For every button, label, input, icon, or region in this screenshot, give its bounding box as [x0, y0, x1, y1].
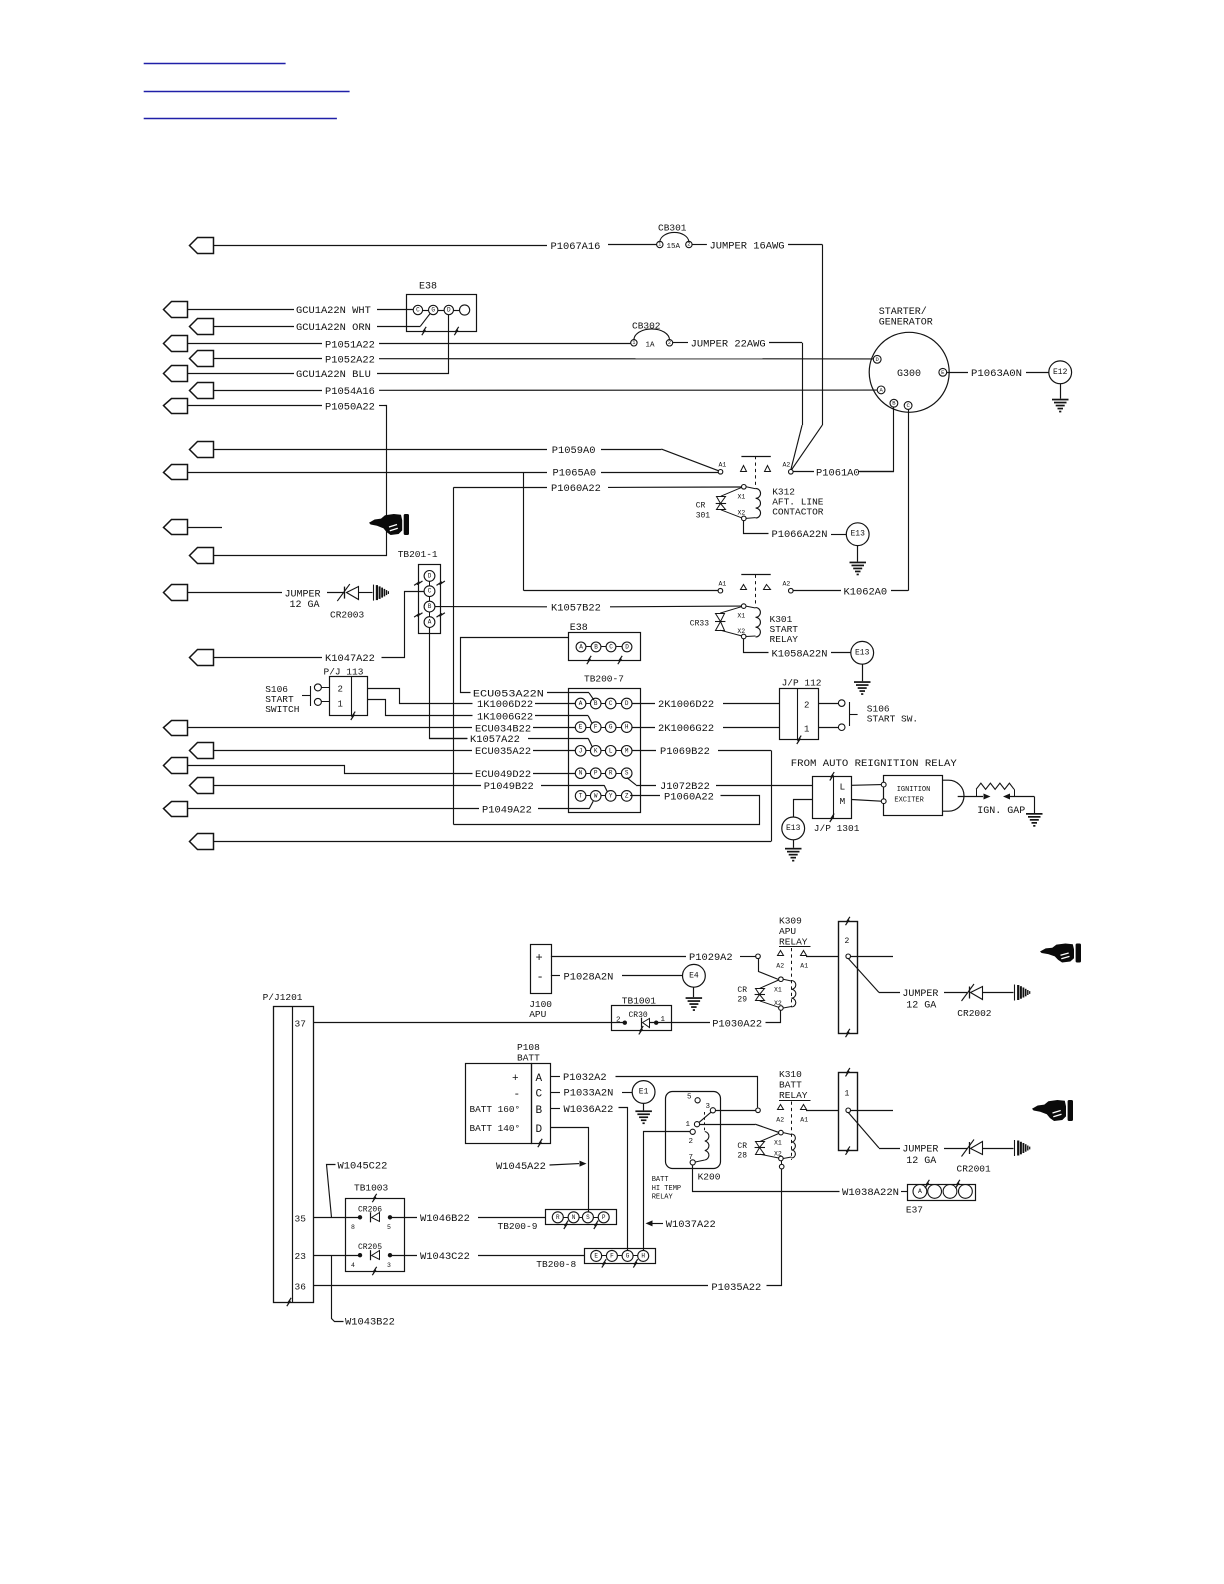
svg-text:A: A: [579, 700, 583, 707]
svg-text:12 GA: 12 GA: [906, 1000, 936, 1011]
svg-text:K1057A22: K1057A22: [470, 734, 520, 746]
svg-text:Y: Y: [609, 792, 613, 799]
svg-text:R: R: [556, 1214, 560, 1221]
svg-text:2: 2: [338, 685, 343, 695]
svg-text:-: -: [537, 970, 544, 984]
svg-text:BATT: BATT: [779, 1080, 802, 1091]
svg-text:GCU1A22N BLU: GCU1A22N BLU: [296, 369, 371, 381]
svg-text:29: 29: [737, 996, 747, 1005]
svg-text:S: S: [586, 1214, 590, 1221]
svg-text:J: J: [579, 747, 583, 754]
svg-text:RELAY: RELAY: [770, 634, 799, 645]
svg-text:B: B: [536, 1105, 543, 1117]
svg-text:S: S: [625, 770, 629, 777]
svg-text:STARTER/: STARTER/: [879, 306, 927, 318]
svg-text:W1043B22: W1043B22: [345, 1317, 395, 1329]
svg-text:CR2002: CR2002: [957, 1008, 992, 1019]
svg-text:A1: A1: [800, 1117, 808, 1124]
svg-text:C: C: [536, 1089, 543, 1101]
svg-text:Z: Z: [625, 792, 629, 799]
svg-text:HI TEMP: HI TEMP: [652, 1185, 681, 1193]
svg-text:W1038A22N: W1038A22N: [842, 1187, 899, 1199]
svg-text:P1060A22: P1060A22: [551, 483, 601, 495]
svg-text:A: A: [428, 619, 432, 626]
svg-text:15A: 15A: [667, 243, 681, 251]
svg-text:K1047A22: K1047A22: [325, 653, 375, 665]
svg-text:N: N: [579, 770, 583, 777]
svg-text:5: 5: [387, 1224, 391, 1231]
svg-text:B: B: [594, 643, 598, 650]
svg-text:-: -: [514, 1089, 521, 1101]
svg-text:12 GA: 12 GA: [290, 600, 320, 611]
svg-text:CR: CR: [737, 1142, 747, 1151]
svg-text:ECU049D22: ECU049D22: [475, 769, 531, 781]
svg-text:1: 1: [804, 724, 809, 734]
svg-text:2: 2: [616, 1017, 621, 1025]
svg-text:C: C: [428, 588, 432, 595]
svg-text:D: D: [447, 307, 451, 314]
svg-text:A2: A2: [776, 1117, 784, 1124]
svg-text:P/J 113: P/J 113: [324, 667, 364, 678]
svg-text:E13: E13: [850, 530, 865, 539]
svg-text:CB302: CB302: [632, 321, 661, 332]
svg-text:P1063A0N: P1063A0N: [971, 368, 1022, 380]
svg-text:X1: X1: [774, 1140, 782, 1147]
svg-text:JUMPER 22AWG: JUMPER 22AWG: [691, 339, 766, 351]
svg-text:36: 36: [295, 1281, 307, 1292]
svg-text:E13: E13: [786, 824, 801, 833]
svg-text:2: 2: [845, 937, 850, 946]
svg-text:L: L: [609, 747, 613, 754]
svg-text:1: 1: [686, 1121, 691, 1129]
svg-text:P1049B22: P1049B22: [484, 781, 534, 793]
svg-text:12 GA: 12 GA: [906, 1156, 936, 1167]
svg-text:P1033A2N: P1033A2N: [564, 1088, 614, 1100]
svg-text:W: W: [594, 792, 598, 799]
svg-text:P1067A16: P1067A16: [551, 241, 601, 253]
svg-text:D: D: [625, 700, 629, 707]
svg-text:BATT: BATT: [652, 1176, 669, 1184]
svg-text:TB200-7: TB200-7: [584, 674, 624, 685]
svg-text:P1060A22: P1060A22: [664, 792, 714, 804]
svg-text:P1029A2: P1029A2: [689, 952, 733, 964]
svg-text:W1036A22: W1036A22: [564, 1104, 614, 1116]
svg-text:JUMPER: JUMPER: [902, 1145, 938, 1156]
svg-text:P1032A2: P1032A2: [563, 1072, 607, 1084]
svg-text:8: 8: [351, 1224, 355, 1231]
svg-text:P1030A22: P1030A22: [712, 1018, 762, 1030]
svg-text:K: K: [594, 747, 598, 754]
svg-text:B: B: [428, 603, 432, 610]
svg-text:M: M: [625, 747, 629, 754]
svg-text:X1: X1: [737, 613, 745, 620]
svg-text:F: F: [594, 724, 598, 731]
svg-text:3: 3: [706, 1103, 711, 1111]
svg-text:SWITCH: SWITCH: [265, 704, 299, 715]
svg-text:301: 301: [696, 512, 711, 521]
svg-text:A1: A1: [719, 462, 727, 469]
svg-text:JUMPER 16AWG: JUMPER 16AWG: [710, 241, 785, 253]
svg-text:CR33: CR33: [690, 620, 709, 629]
svg-text:W1045A22: W1045A22: [496, 1161, 546, 1173]
svg-text:F: F: [610, 1252, 614, 1259]
svg-text:BATT 140°: BATT 140°: [470, 1123, 521, 1134]
svg-text:P1049A22: P1049A22: [482, 805, 532, 817]
svg-text:P/J1201: P/J1201: [263, 992, 303, 1003]
svg-text:H: H: [625, 724, 629, 731]
svg-text:5: 5: [687, 1093, 692, 1101]
svg-text:D: D: [625, 643, 629, 650]
svg-text:K1057B22: K1057B22: [551, 603, 601, 615]
svg-text:CR: CR: [737, 986, 747, 995]
svg-text:2K1006G22: 2K1006G22: [658, 723, 714, 735]
svg-text:28: 28: [737, 1151, 747, 1160]
svg-text:1K1006G22: 1K1006G22: [477, 711, 533, 723]
svg-text:CR2001: CR2001: [957, 1163, 992, 1174]
svg-text:A: A: [579, 643, 583, 650]
svg-text:P1066A22N: P1066A22N: [772, 529, 828, 541]
svg-text:P1059A0: P1059A0: [552, 445, 596, 457]
svg-text:R: R: [609, 770, 613, 777]
svg-text:A1: A1: [800, 963, 808, 970]
svg-text:1: 1: [658, 242, 661, 248]
svg-text:E37: E37: [906, 1204, 923, 1215]
svg-text:APU: APU: [529, 1009, 546, 1020]
svg-text:D: D: [536, 1124, 543, 1136]
svg-text:P1050A22: P1050A22: [325, 402, 375, 414]
svg-text:E13: E13: [855, 648, 870, 657]
svg-text:A: A: [918, 1188, 922, 1195]
svg-text:A2: A2: [776, 963, 784, 970]
svg-text:GENERATOR: GENERATOR: [879, 318, 933, 329]
svg-text:A1: A1: [719, 580, 727, 587]
svg-text:RELAY: RELAY: [779, 937, 808, 948]
svg-text:P1054A16: P1054A16: [325, 386, 375, 398]
svg-text:35: 35: [295, 1213, 307, 1224]
svg-text:BATT: BATT: [517, 1052, 540, 1063]
svg-text:G300: G300: [897, 369, 921, 380]
svg-text:M: M: [840, 796, 846, 807]
svg-text:E: E: [594, 1252, 598, 1259]
svg-text:BATT 160°: BATT 160°: [470, 1104, 521, 1115]
svg-text:23: 23: [295, 1251, 307, 1262]
svg-text:2: 2: [689, 1138, 694, 1146]
svg-text:TB201-1: TB201-1: [398, 549, 438, 560]
svg-text:2K1006D22: 2K1006D22: [658, 699, 714, 711]
svg-text:W1043C22: W1043C22: [420, 1251, 470, 1263]
svg-text:X2: X2: [738, 510, 746, 517]
svg-text:T: T: [579, 792, 583, 799]
svg-text:C: C: [609, 700, 613, 707]
svg-text:L: L: [840, 782, 846, 793]
svg-text:H: H: [641, 1252, 645, 1259]
svg-text:TB1003: TB1003: [354, 1182, 389, 1193]
svg-text:TB200-9: TB200-9: [498, 1221, 538, 1232]
svg-text:TB200-8: TB200-8: [536, 1259, 576, 1270]
svg-text:G: G: [431, 307, 435, 314]
svg-text:2: 2: [668, 340, 671, 346]
svg-text:+: +: [536, 951, 543, 965]
svg-text:C: C: [416, 307, 420, 314]
svg-text:P: P: [594, 770, 598, 777]
svg-text:P1065A0: P1065A0: [553, 468, 597, 480]
svg-text:G: G: [609, 724, 613, 731]
svg-text:APU: APU: [779, 926, 796, 937]
svg-text:P1061A0: P1061A0: [816, 468, 860, 480]
svg-text:EXCITER: EXCITER: [894, 796, 924, 804]
svg-text:J/P 112: J/P 112: [782, 678, 822, 689]
svg-text:IGNITION: IGNITION: [897, 786, 931, 794]
svg-text:E: E: [579, 724, 583, 731]
svg-text:W1037A22: W1037A22: [666, 1219, 716, 1231]
svg-text:CONTACTOR: CONTACTOR: [772, 507, 824, 518]
svg-text:GCU1A22N WHT: GCU1A22N WHT: [296, 305, 371, 317]
svg-text:JUMPER: JUMPER: [285, 589, 321, 600]
svg-text:K309: K309: [779, 916, 802, 927]
svg-text:FROM AUTO REIGNITION RELAY: FROM AUTO REIGNITION RELAY: [791, 759, 957, 770]
svg-text:A2: A2: [783, 462, 791, 469]
svg-text:2: 2: [687, 242, 690, 248]
svg-text:K200: K200: [698, 1172, 721, 1183]
svg-text:X2: X2: [737, 628, 745, 635]
svg-text:JUMPER: JUMPER: [902, 989, 938, 1000]
svg-text:J/P 1301: J/P 1301: [814, 823, 860, 834]
svg-text:B: B: [594, 700, 598, 707]
svg-text:G: G: [626, 1252, 630, 1259]
svg-text:D: D: [428, 572, 432, 579]
svg-text:RELAY: RELAY: [652, 1194, 674, 1202]
svg-text:X1: X1: [774, 987, 782, 994]
svg-text:ECU035A22: ECU035A22: [475, 746, 531, 758]
svg-text:2: 2: [804, 701, 809, 711]
svg-text:P1035A22: P1035A22: [711, 1282, 761, 1294]
svg-text:E12: E12: [1053, 368, 1068, 377]
svg-text:E1: E1: [639, 1088, 649, 1097]
svg-text:K1062A0: K1062A0: [844, 586, 888, 598]
svg-text:K310: K310: [779, 1069, 802, 1080]
svg-text:N: N: [572, 1214, 576, 1221]
svg-text:7: 7: [689, 1154, 694, 1162]
svg-text:P1051A22: P1051A22: [325, 339, 375, 351]
svg-text:X1: X1: [738, 494, 746, 501]
svg-text:1A: 1A: [646, 342, 656, 350]
svg-text:P: P: [602, 1214, 606, 1221]
svg-text:CR: CR: [696, 502, 706, 511]
svg-text:4: 4: [351, 1262, 355, 1269]
svg-text:E38: E38: [419, 282, 437, 293]
svg-text:3: 3: [387, 1262, 391, 1269]
svg-text:RELAY: RELAY: [779, 1090, 808, 1101]
svg-text:1: 1: [632, 340, 635, 346]
svg-text:CR30: CR30: [629, 1011, 648, 1020]
svg-text:IGN. GAP: IGN. GAP: [977, 806, 1025, 817]
svg-text:P1052A22: P1052A22: [325, 354, 375, 366]
svg-text:+: +: [512, 1073, 519, 1085]
svg-text:P1069B22: P1069B22: [660, 746, 710, 758]
svg-text:1: 1: [338, 700, 343, 710]
svg-text:A2: A2: [783, 580, 791, 587]
svg-text:A: A: [536, 1073, 543, 1085]
svg-text:P1028A2N: P1028A2N: [564, 972, 614, 984]
svg-text:W1045C22: W1045C22: [338, 1160, 388, 1172]
svg-text:1K1006D22: 1K1006D22: [477, 699, 533, 711]
svg-text:CR2003: CR2003: [330, 610, 365, 621]
svg-text:START SW.: START SW.: [867, 714, 918, 725]
svg-text:37: 37: [295, 1019, 306, 1030]
svg-text:GCU1A22N ORN: GCU1A22N ORN: [296, 322, 371, 334]
svg-text:X2: X2: [774, 1151, 782, 1158]
svg-text:E4: E4: [689, 971, 699, 980]
svg-text:K1058A22N: K1058A22N: [772, 649, 828, 661]
svg-text:1: 1: [845, 1090, 850, 1099]
svg-text:CB301: CB301: [658, 223, 687, 234]
svg-text:C: C: [609, 643, 613, 650]
svg-text:W1046B22: W1046B22: [420, 1213, 470, 1225]
